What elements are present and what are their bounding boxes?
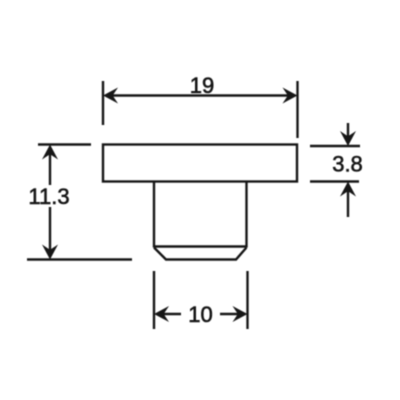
- dim 3.8 up arrowhead: [340, 182, 356, 197]
- dim 10 right segment of dimension line: [220, 313, 244, 315]
- svg-text:19: 19: [190, 73, 214, 98]
- dim 19 right arrowhead: [283, 88, 298, 104]
- shank chamfered tip: [154, 248, 247, 260]
- svg-text:11.3: 11.3: [28, 184, 69, 209]
- dim 11.3 up arrowhead: [42, 145, 58, 160]
- dim 19 left extension line: [102, 81, 104, 125]
- dim 19 dimension line: [106, 94, 294, 96]
- dim 11.3 down arrowhead: [42, 245, 58, 260]
- shank right edge: [245, 182, 247, 248]
- dim 3.8 lower leader line: [347, 185, 349, 217]
- shank chamfer shoulder line: [154, 245, 247, 247]
- dim 10 right arrowhead (points right): [233, 306, 248, 322]
- svg-text:3.8: 3.8: [332, 152, 363, 177]
- dim 19 left arrowhead: [103, 88, 118, 104]
- dim 11.3 top extension line: [38, 143, 91, 145]
- dim 10 left segment of dimension line: [157, 313, 181, 315]
- dim 10 right extension line: [246, 271, 248, 329]
- dim 3.8 upper leader line: [347, 123, 349, 143]
- dim 3.8 down arrowhead: [340, 131, 356, 146]
- shank left edge: [153, 182, 155, 248]
- dim 3.8 bottom extension line: [310, 180, 359, 182]
- dim 19 right extension line: [296, 81, 298, 138]
- svg-text:10: 10: [188, 302, 212, 327]
- dim 10 left extension line: [153, 271, 155, 329]
- dim 3.8 top extension line: [310, 145, 360, 147]
- dim 10 left arrowhead (points left): [154, 306, 169, 322]
- dim 11.3 dimension line upper segment: [49, 147, 51, 185]
- dim 11.3 bottom extension line: [27, 258, 132, 260]
- flange outline (top rectangle of plug): [103, 145, 297, 182]
- dim 11.3 dimension line lower segment: [49, 207, 51, 257]
